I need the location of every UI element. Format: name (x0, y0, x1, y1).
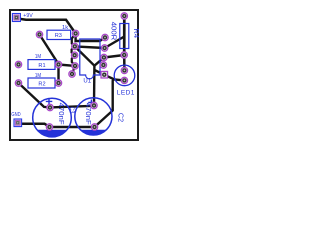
pad U1 pin1 square (101, 71, 108, 78)
wire U1 big diagonal (75, 46, 95, 65)
svg-text:1M: 1M (35, 54, 41, 60)
svg-text:400R: 400R (110, 22, 117, 41)
wire U1 pin3 to R4 bottom pad (104, 55, 124, 58)
wire R1 right pad to U1 pin (59, 65, 76, 66)
wire junction to C2 top pad (93, 66, 96, 106)
capacitor C2 circle (75, 98, 112, 135)
pad U1 right 4 (100, 62, 106, 68)
wire R3 left pad to R1 right pad (40, 35, 59, 64)
resistor R4 body (120, 24, 129, 49)
pad C3 top (47, 104, 53, 110)
wire junction to LED bottom pad (95, 70, 125, 80)
pad below U1 (69, 71, 75, 77)
pad C3 bottom (46, 124, 52, 130)
wire U1 pin2 row (75, 46, 105, 48)
svg-text:R3: R3 (55, 33, 62, 39)
resistor R3 body (47, 30, 71, 39)
svg-text:1M: 1M (35, 73, 41, 79)
pad U1 right 1 (102, 34, 108, 40)
C2 plus mark (88, 100, 95, 106)
wire U1 pin to R4 top pad (105, 37, 125, 49)
pad R2 right (55, 80, 61, 86)
wire U1 left column weave (72, 34, 76, 66)
board outline (10, 10, 138, 140)
pad R2 left (15, 80, 21, 86)
pad LED bottom (121, 77, 127, 83)
C3 plus mark (46, 98, 53, 104)
svg-text:+9V: +9V (23, 13, 33, 19)
wire GND to C3 bottom pad (22, 124, 50, 127)
resistor R1 body (28, 60, 55, 70)
svg-text:470nF: 470nF (57, 103, 66, 125)
svg-text:GND: GND (11, 112, 21, 118)
svg-text:C2: C2 (116, 113, 125, 122)
pad R4 bottom (121, 52, 127, 58)
wire U1 top bar from pad to right pad (76, 34, 105, 42)
resistor R2 body (28, 78, 55, 88)
pad R3 left (36, 31, 42, 37)
wire R2 left pad to C3 top pad (19, 83, 51, 107)
svg-text:1k: 1k (62, 25, 68, 31)
LED1 circle (114, 65, 135, 86)
svg-text:R4: R4 (132, 28, 139, 38)
GND square pad (14, 119, 22, 127)
IC U1 outline (80, 39, 100, 79)
pad C2 top (91, 102, 97, 108)
wire junction to C2 bottom pad (95, 79, 114, 127)
svg-text:LED1: LED1 (117, 89, 135, 96)
svg-text:R1: R1 (38, 63, 45, 69)
pad R4 top (121, 13, 127, 19)
pad U1 right 3 (101, 54, 107, 60)
wire +9V trace (19, 19, 76, 34)
wire C3 top to C2 top (50, 106, 94, 108)
svg-text:C3: C3 (68, 107, 75, 114)
capacitor C3 circle (33, 98, 72, 137)
pad U1 right 2 (101, 45, 107, 51)
svg-text:R2: R2 (38, 82, 45, 88)
pad R1 right (55, 61, 61, 67)
+9V square pad (12, 14, 20, 22)
wire U1 pin to pad below (72, 66, 75, 74)
pad U1 left 3 (71, 52, 77, 58)
wire R4 bottom to LED top (123, 55, 126, 70)
wire R1 right pad to R2 right pad (57, 65, 59, 84)
pad R3 right (72, 30, 78, 36)
pad R1 left (15, 61, 21, 67)
pad U1 left 2 (72, 43, 78, 49)
wire U1 right pin to junction (94, 58, 104, 66)
wire through R4 body (123, 16, 126, 55)
pad C2 bottom (91, 124, 97, 130)
svg-text:U1: U1 (83, 78, 91, 84)
pad U1 left 4 (72, 63, 78, 69)
wire C3 bottom to C2 bottom (50, 126, 95, 129)
pad LED top (121, 67, 127, 73)
